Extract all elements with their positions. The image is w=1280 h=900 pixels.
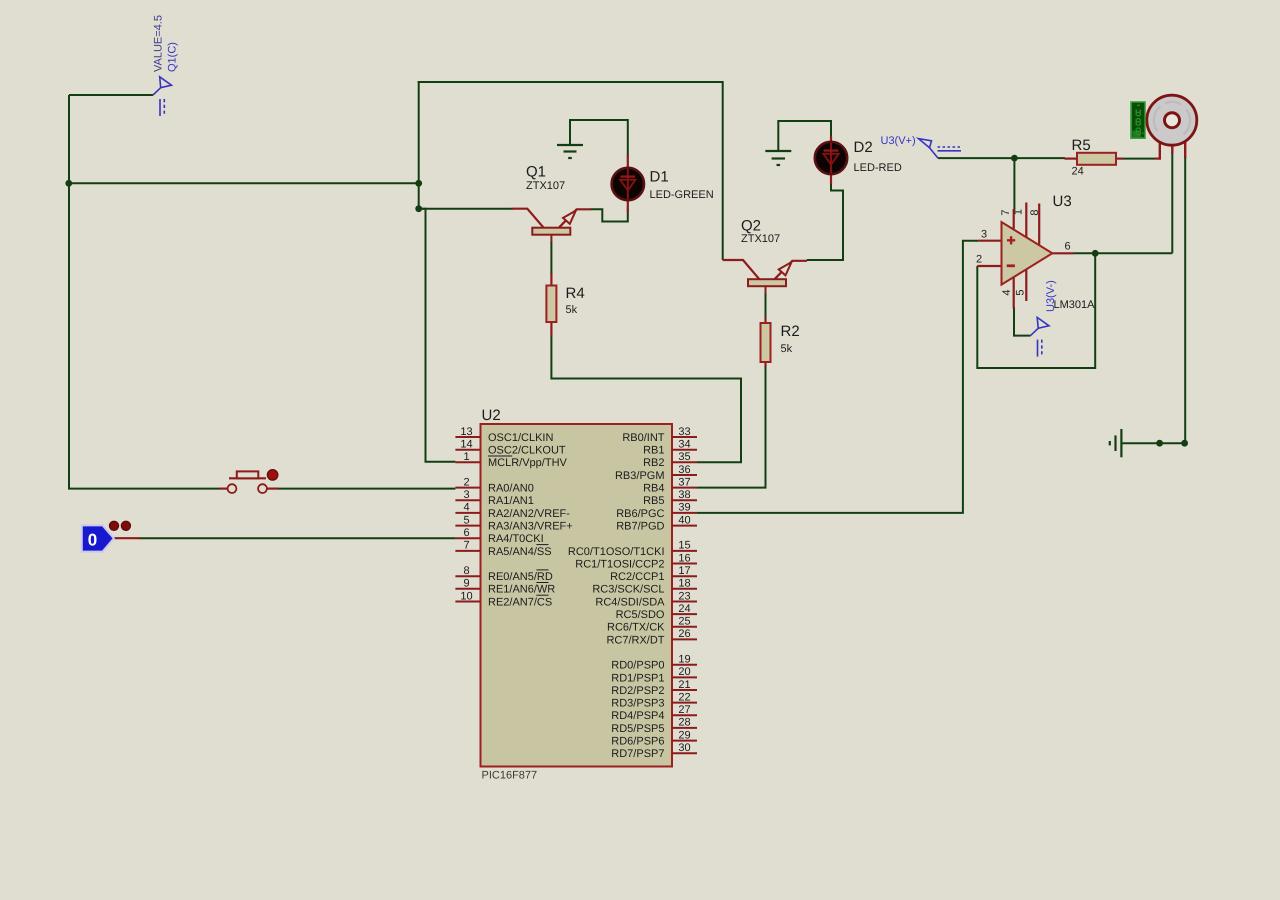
svg-text:RD6/PSP6: RD6/PSP6: [611, 736, 664, 748]
svg-text:RD3/PSP3: RD3/PSP3: [611, 698, 664, 710]
svg-text:6: 6: [463, 527, 469, 539]
svg-text:LM301A: LM301A: [1054, 299, 1096, 311]
junction A: [65, 180, 72, 187]
wire opamp pin7 supply: [1013, 158, 1015, 211]
svg-text:RD2/PSP2: RD2/PSP2: [611, 685, 664, 697]
button actuator ball: [267, 470, 277, 480]
U2 pin 6 RA4/T0CKI: [455, 527, 543, 545]
svg-text:25: 25: [678, 616, 690, 628]
U2 pin 1 MCLR/Vpp/THV: [455, 451, 567, 469]
wire motor middle pin down: [1171, 152, 1173, 253]
U2 pin 7 RA5/AN4/SS: [455, 540, 551, 558]
svg-text:23: 23: [678, 590, 690, 602]
U2 pin 8 RE0/AN5/RD: [455, 565, 552, 583]
junction motor/ground: [1181, 440, 1188, 447]
svg-text:1: 1: [1013, 209, 1025, 215]
svg-text:D1: D1: [650, 169, 669, 186]
wire right ground rail: [1121, 442, 1185, 444]
svg-text:RC0/T1OSO/T1CKI: RC0/T1OSO/T1CKI: [568, 546, 665, 558]
LED D2: [815, 136, 847, 184]
U2 pin 27 RD4/PSP4: [611, 704, 697, 722]
op-amp U3: [977, 203, 1073, 309]
svg-text:RB4: RB4: [643, 483, 664, 495]
svg-text:RE0/AN5/RD: RE0/AN5/RD: [488, 571, 553, 583]
svg-text:4: 4: [1001, 289, 1013, 295]
U2 pin 13 OSC1/CLKIN: [455, 426, 553, 444]
svg-text:RA3/AN3/VREF+: RA3/AN3/VREF+: [488, 521, 573, 533]
svg-text:27: 27: [678, 704, 690, 716]
svg-text:5k: 5k: [566, 304, 578, 316]
svg-text:RB1: RB1: [643, 445, 664, 457]
probe U3(V-): [1031, 317, 1050, 356]
svg-text:3: 3: [463, 489, 469, 501]
wire Q2 collector vertical x722.7: [722, 81, 724, 260]
logic state dots: [109, 521, 130, 530]
svg-text:29: 29: [678, 729, 690, 741]
svg-text:RB6/PGC: RB6/PGC: [616, 508, 664, 520]
motor pins: [1160, 142, 1185, 160]
svg-text:39: 39: [678, 502, 690, 514]
svg-text:28: 28: [678, 717, 690, 729]
svg-text:37: 37: [678, 476, 690, 488]
junction ground rail: [1156, 440, 1163, 447]
U2 pin 4 RA2/AN2/VREF-: [455, 502, 570, 520]
wire R4 base link: [550, 241, 552, 274]
svg-text:R2: R2: [781, 323, 800, 340]
U2 pin 21 RD2/PSP2: [611, 679, 697, 697]
svg-text:RC3/SCK/SCL: RC3/SCK/SCL: [592, 584, 664, 596]
svg-text:VALUE=4.5: VALUE=4.5: [153, 15, 165, 72]
svg-text:D2: D2: [854, 139, 873, 156]
U2 pin 39 RB6/PGC: [616, 502, 697, 520]
U2 pin 28 RD5/PSP5: [611, 717, 697, 735]
svg-text:40: 40: [678, 514, 690, 526]
svg-text:OSC2/CLKOUT: OSC2/CLKOUT: [488, 445, 566, 457]
U2 pin 26 RC7/RX/DT: [606, 628, 697, 646]
svg-text:21: 21: [678, 679, 690, 691]
svg-text:RC5/SDO: RC5/SDO: [616, 609, 665, 621]
U2 pin 14 OSC2/CLKOUT: [455, 439, 566, 457]
svg-text:8: 8: [1029, 209, 1041, 215]
svg-text:RB3/PGM: RB3/PGM: [615, 470, 665, 482]
probe Q1(C): [153, 77, 172, 116]
svg-text:26: 26: [678, 628, 690, 640]
U2 pin 15 RC0/T1OSO/T1CKI: [568, 540, 697, 558]
probe U3(V+): [919, 139, 962, 159]
svg-text:RD7/PSP7: RD7/PSP7: [611, 748, 664, 760]
svg-text:5: 5: [1015, 289, 1027, 295]
wire Q1 collector horizontal y209: [419, 208, 514, 210]
svg-text:5k: 5k: [781, 343, 793, 355]
svg-text:ZTX107: ZTX107: [741, 233, 780, 245]
svg-text:RB0/INT: RB0/INT: [622, 432, 664, 444]
svg-text:10: 10: [460, 590, 472, 602]
svg-text:15: 15: [678, 540, 690, 552]
svg-text:RA1/AN1: RA1/AN1: [488, 495, 534, 507]
svg-text:RA2/AN2/VREF-: RA2/AN2/VREF-: [488, 508, 570, 520]
wire opamp output: [1073, 252, 1172, 254]
button contacts: [220, 471, 279, 493]
LED D1: [612, 155, 644, 212]
wire motor right pin to ground: [1184, 156, 1186, 443]
wire Q2 emitter link: [807, 259, 843, 261]
svg-text:R4: R4: [566, 285, 585, 302]
svg-text:RC1/T1OSI/CCP2: RC1/T1OSI/CCP2: [575, 558, 664, 570]
svg-text:LED-RED: LED-RED: [854, 162, 902, 174]
U2 pin 19 RD0/PSP0: [611, 654, 697, 672]
motor rpm display: [1130, 101, 1146, 139]
svg-text:0: 0: [88, 531, 97, 550]
svg-text:2: 2: [463, 476, 469, 488]
U2 pin 30 RD7/PSP7: [611, 742, 697, 760]
junction B: [415, 180, 422, 187]
svg-text:U2: U2: [482, 407, 501, 424]
svg-text:RB2: RB2: [643, 457, 664, 469]
wire opamp pin4: [1014, 307, 1031, 336]
svg-text:RC6/TX/CK: RC6/TX/CK: [607, 622, 665, 634]
U2 pin 3 RA1/AN1: [455, 489, 533, 507]
wire D1 ground link: [570, 120, 628, 156]
svg-text:RE2/AN7/CS: RE2/AN7/CS: [488, 596, 552, 608]
U2 pin 24 RC5/SDO: [616, 603, 697, 621]
svg-text:4: 4: [463, 502, 469, 514]
svg-text:7: 7: [463, 540, 469, 552]
svg-text:33: 33: [678, 426, 690, 438]
svg-text:5: 5: [463, 514, 469, 526]
svg-text:1: 1: [463, 451, 469, 463]
U2 chip body: [481, 424, 673, 767]
junction V+: [1011, 155, 1018, 162]
ground G1 (D1): [557, 145, 583, 158]
U2 pin 17 RC2/CCP1: [610, 565, 697, 583]
svg-text:RC4/SDI/SDA: RC4/SDI/SDA: [595, 596, 665, 608]
U2 pin 20 RD1/PSP1: [611, 666, 697, 684]
wire MCLR branch: [419, 209, 456, 462]
svg-text:35: 35: [678, 451, 690, 463]
svg-text:16: 16: [678, 552, 690, 564]
svg-text:OSC1/CLKIN: OSC1/CLKIN: [488, 432, 553, 444]
ground G3 (right, rotated): [1110, 429, 1122, 457]
wire RA4 row: [139, 537, 455, 539]
wire D2 cathode jog: [807, 182, 843, 260]
U2 pin 25 RC6/TX/CK: [607, 616, 697, 634]
svg-text:RB5: RB5: [643, 495, 664, 507]
U2 pin 34 RB1: [643, 439, 697, 457]
svg-text:34: 34: [678, 439, 690, 451]
svg-text:LED-GREEN: LED-GREEN: [650, 189, 714, 201]
wire R2 base link: [765, 293, 767, 319]
motor pin left link: [1155, 158, 1161, 160]
logic state tag: [82, 525, 140, 551]
U2 pin 37 RB4: [643, 476, 697, 494]
wire RB6 pin39 to opamp pin3: [697, 241, 978, 513]
U2 pin 10 RE2/AN7/CS: [455, 590, 552, 608]
wire vertical x418.7: [418, 81, 420, 209]
svg-text:14: 14: [460, 439, 472, 451]
U2 pin 2 RA0/AN0: [455, 476, 533, 494]
U2 pin 35 RB2: [643, 451, 697, 469]
U2 pin 38 RB5: [643, 489, 697, 507]
svg-text:17: 17: [678, 565, 690, 577]
svg-text:18: 18: [678, 578, 690, 590]
svg-text:20: 20: [678, 666, 690, 678]
junction C: [415, 205, 422, 212]
wire RA0 row right: [278, 488, 455, 490]
U2 pin 29 RD6/PSP6: [611, 729, 697, 747]
svg-text:RD0/PSP0: RD0/PSP0: [611, 660, 664, 672]
U2 pin 23 RC4/SDI/SDA: [595, 590, 697, 608]
wire RA0 row left: [68, 488, 220, 490]
svg-text:8: 8: [463, 565, 469, 577]
svg-text:RD4/PSP4: RD4/PSP4: [611, 710, 664, 722]
svg-text:RB7/PGD: RB7/PGD: [616, 521, 664, 533]
wire R4 to RB2 pin35: [551, 336, 741, 463]
svg-text:U3(V+): U3(V+): [881, 135, 916, 147]
svg-text:6: 6: [1065, 241, 1071, 253]
svg-text:ZTX107: ZTX107: [526, 180, 565, 192]
svg-text:RC7/RX/DT: RC7/RX/DT: [606, 634, 664, 646]
wire R5 to motor: [1122, 158, 1155, 160]
wire D2 ground link: [778, 121, 831, 151]
U2 pin 22 RD3/PSP3: [611, 691, 697, 709]
transistor Q1: [512, 209, 592, 242]
svg-text:RD1/PSP1: RD1/PSP1: [611, 672, 664, 684]
svg-text:Q1(C): Q1(C): [167, 42, 179, 72]
svg-text:30: 30: [678, 742, 690, 754]
svg-text:9: 9: [463, 578, 469, 590]
ground G2 (D2): [765, 151, 791, 165]
wire U3 V+ rail: [938, 157, 1065, 159]
svg-text:13: 13: [460, 426, 472, 438]
svg-text:22: 22: [678, 691, 690, 703]
wire R2 to RB4 pin37: [697, 366, 766, 488]
svg-text:24: 24: [678, 603, 690, 615]
U2 pin 5 RA3/AN3/VREF+: [455, 514, 572, 532]
svg-text:R5: R5: [1072, 137, 1091, 154]
svg-text:MCLR/Vpp/THV: MCLR/Vpp/THV: [488, 457, 568, 469]
resistor R2: [761, 318, 771, 367]
svg-text:RE1/AN6/WR: RE1/AN6/WR: [488, 584, 555, 596]
U2 pin 18 RC3/SCK/SCL: [592, 578, 697, 596]
wire top horizontal y82: [418, 81, 723, 83]
svg-text:RA4/T0CKI: RA4/T0CKI: [488, 533, 544, 545]
U2 pin 9 RE1/AN6/WR: [455, 578, 555, 596]
svg-text:38: 38: [678, 489, 690, 501]
svg-text:24: 24: [1072, 166, 1084, 178]
U2 pin 33 RB0/INT: [622, 426, 697, 444]
junction output/feedback: [1092, 250, 1099, 257]
svg-text:2: 2: [976, 254, 982, 266]
U2 pin 36 RB3/PGM: [615, 464, 697, 482]
svg-text:RD5/PSP5: RD5/PSP5: [611, 723, 664, 735]
svg-text:Q1: Q1: [526, 164, 546, 181]
resistor R4: [546, 273, 556, 337]
svg-text:3: 3: [981, 229, 987, 241]
resistor R5: [1065, 153, 1124, 165]
svg-text:U3: U3: [1053, 193, 1072, 210]
svg-text:RA0/AN0: RA0/AN0: [488, 483, 534, 495]
wire opamp feedback pin2: [977, 253, 1095, 369]
svg-text:36: 36: [678, 464, 690, 476]
svg-text:Q2: Q2: [741, 218, 761, 235]
svg-text:RC2/CCP1: RC2/CCP1: [610, 571, 664, 583]
wire probe Q1(C) horizontal: [69, 94, 153, 96]
wire D1 cathode jog: [591, 209, 628, 222]
U2 pin 16 RC1/T1OSI/CCP2: [575, 552, 697, 570]
wire left vertical bus: [68, 95, 70, 489]
wire horizontal y183: [68, 182, 419, 184]
transistor Q2: [723, 260, 807, 294]
svg-text:PIC16F877: PIC16F877: [482, 770, 538, 782]
svg-text:RA5/AN4/SS: RA5/AN4/SS: [488, 546, 552, 558]
motor body: [1147, 95, 1197, 145]
U2 pin 40 RB7/PGD: [616, 514, 697, 532]
svg-text:19: 19: [678, 654, 690, 666]
svg-text:7: 7: [1000, 209, 1012, 215]
